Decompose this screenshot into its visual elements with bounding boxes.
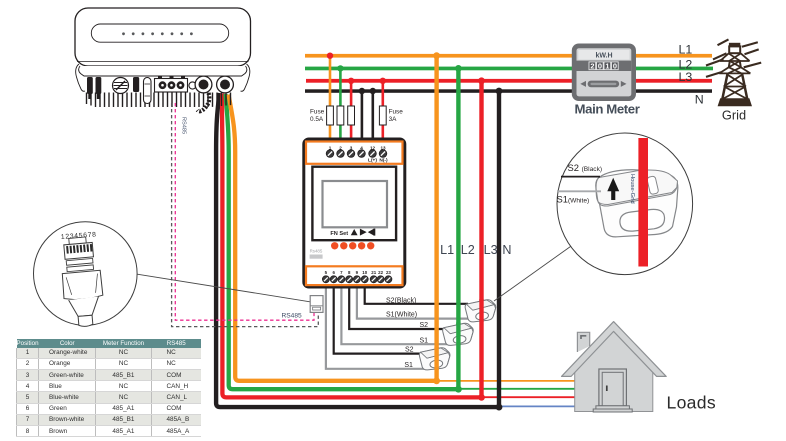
svg-text:FN Set: FN Set (330, 231, 348, 237)
svg-text:L(+): L(+) (368, 157, 377, 163)
svg-text:Rs485: Rs485 (310, 249, 323, 254)
svg-text:L1: L1 (440, 243, 454, 257)
svg-text:L2: L2 (461, 243, 475, 257)
svg-text:22: 22 (378, 270, 383, 275)
svg-text:S1: S1 (404, 362, 413, 369)
svg-text:Main Meter: Main Meter (575, 102, 640, 117)
svg-text:S2: S2 (420, 322, 429, 329)
svg-text:S1: S1 (420, 337, 429, 344)
svg-text:N: N (695, 92, 704, 106)
svg-text:Fuse: Fuse (389, 109, 404, 116)
svg-text:N(-): N(-) (379, 157, 388, 163)
svg-text:Loads: Loads (667, 392, 716, 412)
svg-text:1: 1 (605, 62, 609, 71)
svg-text:2: 2 (590, 62, 594, 71)
svg-text:10: 10 (362, 270, 367, 275)
svg-text:0: 0 (613, 62, 617, 71)
svg-text:House-Grid: House-Grid (629, 174, 635, 204)
svg-text:S1(White): S1(White) (386, 311, 417, 318)
svg-text:0.5A: 0.5A (310, 116, 324, 123)
svg-text:S2(Black): S2(Black) (386, 297, 416, 304)
svg-text:S2: S2 (405, 347, 414, 354)
svg-text:RS485: RS485 (181, 117, 187, 134)
svg-text:21: 21 (371, 270, 376, 275)
svg-text:L3: L3 (679, 70, 693, 84)
svg-text:3A: 3A (389, 116, 398, 123)
svg-text:L1: L1 (679, 42, 693, 56)
svg-text:L3: L3 (484, 243, 498, 257)
svg-text:Fuse: Fuse (310, 109, 325, 116)
svg-text:23: 23 (386, 270, 391, 275)
svg-text:kW.H: kW.H (595, 53, 612, 60)
svg-text:Grid: Grid (722, 108, 746, 123)
svg-text:RS485: RS485 (282, 312, 302, 319)
svg-text:0: 0 (598, 62, 602, 71)
svg-text:N: N (502, 243, 511, 257)
